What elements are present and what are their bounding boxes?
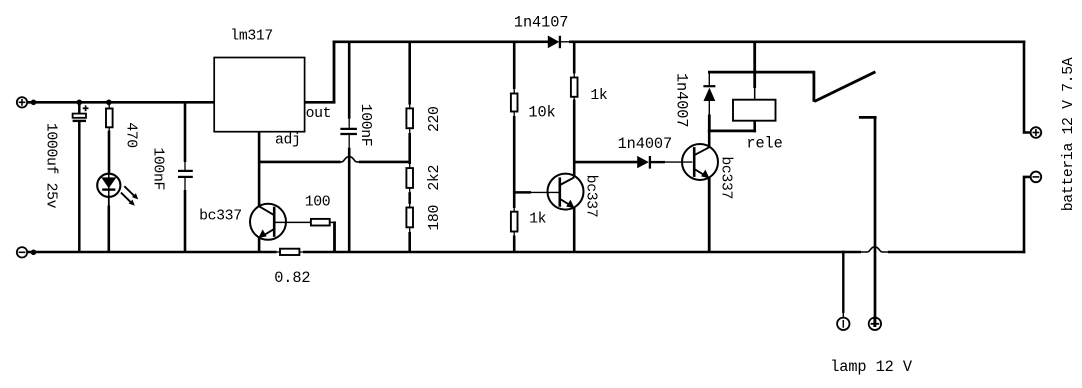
terminal battery plus xyxy=(1031,127,1042,138)
wire top rail2 right segment xyxy=(569,40,1025,43)
terminal lamp right xyxy=(869,317,881,330)
wire Q3 emitter to bottom rail xyxy=(708,178,711,253)
svg-text:10k: 10k xyxy=(528,103,555,121)
wire Q1 base lead xyxy=(274,221,311,223)
wire relay common top xyxy=(708,71,814,74)
svg-text:220: 220 xyxy=(427,106,443,132)
svg-text:470: 470 xyxy=(123,122,139,148)
wire bottom rail hop over lamp wire xyxy=(861,247,888,252)
svg-text:100nF: 100nF xyxy=(357,104,373,147)
resistor R 180 xyxy=(406,204,442,233)
svg-text:lm317: lm317 xyxy=(230,29,273,45)
wire 100 return to bottom rail xyxy=(333,221,336,252)
wire 10k branch top xyxy=(513,41,516,90)
svg-text:1n4107: 1n4107 xyxy=(514,14,568,32)
switch pole xyxy=(813,71,816,102)
wire battery positive branch xyxy=(1024,41,1031,133)
svg-text:batteria 12 V 7.5A: batteria 12 V 7.5A xyxy=(1061,57,1077,211)
resistor R 220 xyxy=(406,104,442,134)
svg-text:1k: 1k xyxy=(590,88,608,104)
wire top rail2 left segment xyxy=(333,40,538,43)
switch contact xyxy=(859,116,877,317)
wire R470 to LED xyxy=(108,131,111,175)
svg-text:1n4007: 1n4007 xyxy=(673,73,691,127)
svg-text:bc337: bc337 xyxy=(583,175,599,218)
wire Q2 emitter to bottom rail xyxy=(573,208,576,253)
wire 10k to base node xyxy=(513,116,516,208)
wire bottom rail right segment xyxy=(888,251,1025,254)
resistor R 1k upper xyxy=(571,73,608,104)
svg-text:lamp 12 V: lamp 12 V xyxy=(830,358,913,376)
wire 1k lower to bottom rail xyxy=(513,236,516,253)
node junction dot C1 xyxy=(77,100,83,106)
wire 180 to bottom rail xyxy=(408,232,411,252)
switch blade xyxy=(814,72,875,102)
capacitor C1 1000uf electrolytic xyxy=(43,101,89,252)
svg-text:1k: 1k xyxy=(529,211,547,227)
terminal battery minus xyxy=(1031,172,1042,183)
wire 1k to Q2 collector xyxy=(573,100,576,178)
terminal minus input xyxy=(17,247,27,257)
wire adj pin vertical xyxy=(258,132,261,207)
svg-text:out: out xyxy=(306,106,332,122)
wire lamp left xyxy=(842,251,844,318)
wire relay coil bottom L xyxy=(708,120,756,132)
terminal plus input xyxy=(17,97,27,107)
wire 220 to 2k2 xyxy=(408,133,411,164)
svg-text:1000uf 25v: 1000uf 25v xyxy=(43,123,59,209)
resistor R 1k lower xyxy=(511,208,547,237)
resistor R 10k xyxy=(511,89,556,122)
wire collector node to diode xyxy=(573,161,638,164)
LED D1 xyxy=(97,174,138,206)
resistor chain wire top xyxy=(408,41,411,105)
node junction dot top-left xyxy=(31,100,37,106)
wire LED to bottom rail xyxy=(108,197,110,206)
node junction dot R470 xyxy=(106,100,112,106)
terminal lamp left xyxy=(837,318,849,330)
svg-text:bc337: bc337 xyxy=(199,209,242,225)
diode D 1n4007 relay xyxy=(673,72,716,132)
capacitor C2 100nF xyxy=(150,101,193,252)
diode D 1n4107 xyxy=(514,14,570,49)
regulator U1 lm317 xyxy=(214,29,331,149)
svg-text:1n4007: 1n4007 xyxy=(618,135,672,153)
svg-text:180: 180 xyxy=(427,205,443,231)
svg-text:rele: rele xyxy=(746,135,782,153)
transistor Q3 bc337 xyxy=(682,144,734,199)
svg-text:adj: adj xyxy=(275,133,301,149)
wire 1k top branch xyxy=(573,41,576,74)
relay coil K1 xyxy=(733,100,783,153)
wire out pin xyxy=(305,41,336,104)
transistor Q1 bc337 xyxy=(199,204,286,240)
wire top rail to LM317 xyxy=(28,101,215,104)
resistor 0.82 xyxy=(274,249,310,287)
resistor R 2k2 xyxy=(406,164,442,193)
resistor R 470 xyxy=(106,104,139,148)
wire Q3 collector xyxy=(708,130,711,148)
capacitor C3 100nF xyxy=(340,41,372,253)
svg-text:100nF: 100nF xyxy=(150,147,166,190)
wire adj horizontal with hop xyxy=(259,157,411,162)
resistor R 100 xyxy=(305,195,336,226)
transistor Q2 bc337 xyxy=(513,174,599,218)
wire 2k2 to 180 xyxy=(408,192,411,204)
svg-text:100: 100 xyxy=(305,195,331,211)
node junction dot bottom-left xyxy=(31,250,37,256)
wire bottom rail left segment xyxy=(28,251,277,254)
wire battery negative branch xyxy=(1024,177,1031,253)
svg-text:0.82: 0.82 xyxy=(274,269,310,287)
wire relay coil top xyxy=(753,41,756,101)
wire Q1 emitter to bottom rail xyxy=(258,238,261,253)
svg-text:2k2: 2k2 xyxy=(427,165,443,191)
diode D 1n4007 middle xyxy=(618,135,693,169)
svg-text:bc337: bc337 xyxy=(718,156,734,199)
wire bottom rail middle segment xyxy=(303,251,861,254)
